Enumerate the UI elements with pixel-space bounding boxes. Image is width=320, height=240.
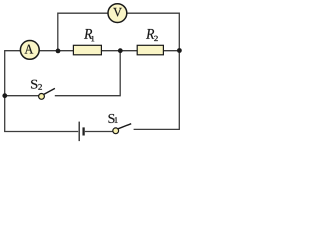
wire: S2 branch left rail to switch pivot	[4, 95, 39, 97]
ammeter letter A	[25, 45, 34, 54]
wire: main row R1 to R2	[101, 50, 138, 52]
switch S1 blade	[118, 124, 131, 129]
switch S1 pivot circle	[113, 128, 119, 134]
wire: voltmeter branch left (node to top rail to voltmeter)	[58, 13, 108, 51]
label R1	[84, 29, 92, 39]
switch S2 blade	[44, 88, 55, 94]
node: junction at voltmeter drop	[56, 49, 61, 54]
voltmeter letter V	[113, 8, 122, 17]
wire: battery to S1 pivot	[85, 131, 113, 133]
voltmeter circle	[108, 4, 127, 23]
node: junction between R1 and R2	[118, 48, 123, 53]
wire: bottom rail left to battery	[5, 130, 79, 133]
wire: main row left rail to ammeter	[4, 50, 20, 52]
wire: S1 throw to bottom-right corner	[134, 128, 180, 130]
label S1	[109, 114, 115, 123]
node: junction S2 branch on left rail	[2, 93, 7, 98]
resistor R1 body	[73, 45, 101, 55]
resistor R2 body	[137, 45, 163, 55]
battery long plate	[78, 122, 80, 142]
label R2	[146, 29, 154, 39]
node: junction main row to right rail	[177, 48, 182, 53]
wire: main row R2 to right rail	[163, 50, 179, 52]
battery short plate	[82, 127, 84, 135]
wire: main row ammeter to R1	[39, 50, 74, 52]
label S2	[31, 80, 37, 89]
wire: S2 branch from R1-R2 node down and left to switch	[55, 51, 120, 96]
wire: left rail vertical	[4, 51, 6, 132]
wire: top rail right segment and right rail down	[127, 13, 179, 129]
ammeter circle	[20, 41, 39, 60]
switch S2 pivot circle	[39, 94, 45, 100]
